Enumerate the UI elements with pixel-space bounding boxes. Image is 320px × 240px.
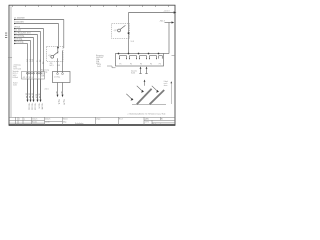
svg-text:-X1 1 2 3 4 5: -X1 1 2 3 4 5 — [23, 77, 33, 79]
svg-text:a: a — [24, 119, 25, 121]
svg-text:gn 16: gn 16 — [39, 94, 41, 99]
svg-text:sw 16: sw 16 — [32, 93, 34, 98]
svg-text:PE Verteilg.: PE Verteilg. — [14, 41, 24, 44]
svg-text:nach: nach — [164, 83, 168, 85]
svg-text:Bearb.: Bearb. — [32, 122, 38, 124]
svg-text:1L3 Verteilg.: 1L3 Verteilg. — [14, 35, 24, 38]
svg-text:Datum: Datum — [45, 118, 51, 121]
svg-text:F2: F2 — [130, 64, 132, 66]
svg-text:1: 1 — [19, 119, 20, 121]
svg-text:Kabel: Kabel — [131, 72, 136, 74]
svg-text:50Hz: 50Hz — [41, 76, 45, 78]
svg-text:E.Werk: E.Werk — [13, 76, 19, 79]
svg-text:1L3: 1L3 — [32, 59, 34, 62]
svg-text:N 400/230V: N 400/230V — [14, 22, 24, 24]
svg-text:F4: F4 — [150, 64, 152, 66]
svg-text:10.8: 10.8 — [131, 41, 134, 43]
svg-text:F3: F3 — [140, 64, 142, 66]
svg-text:sw 16: sw 16 — [26, 93, 28, 98]
svg-text:1L1 4x6: 1L1 4x6 — [14, 30, 20, 32]
svg-text:-K1 Stg: -K1 Stg — [54, 76, 60, 79]
svg-text:Vert.1L1: Vert.1L1 — [27, 104, 30, 111]
svg-text:F1: F1 — [120, 64, 122, 66]
svg-text:12.04: 12.04 — [45, 122, 50, 124]
svg-text:bl 16: bl 16 — [36, 94, 38, 98]
svg-text:oben: oben — [164, 85, 168, 87]
svg-text:Kabel: Kabel — [164, 81, 169, 83]
svg-text:Ers.f: Ers.f — [119, 119, 123, 121]
svg-text:Mey: Mey — [63, 122, 66, 124]
svg-text:Datum: Datum — [32, 118, 38, 121]
svg-text:-L1/2.3: -L1/2.3 — [164, 11, 170, 13]
svg-text:-Q2: -Q2 — [114, 30, 117, 32]
svg-text:N Verteilg.: N Verteilg. — [14, 38, 23, 41]
svg-text:2x2,5: 2x2,5 — [45, 89, 49, 91]
svg-text:Vert.PE: Vert.PE — [40, 104, 43, 111]
svg-text:z. Bodenkanalbreite mit 70 Kab: z. Bodenkanalbreite mit 70 Kabel, max.2 … — [128, 112, 166, 115]
svg-text:+ST1: +ST1 — [145, 122, 149, 124]
svg-text:=ANL: =ANL — [145, 118, 150, 121]
svg-text:Stg.1L: Stg.1L — [57, 99, 60, 104]
svg-text:L1 400/230V: L1 400/230V — [14, 18, 25, 20]
svg-text:1L2 Heizg.Vert.1OG: 1L2 Heizg.Vert.1OG — [14, 32, 31, 35]
svg-text:1L1: 1L1 — [27, 59, 29, 62]
svg-text:Schaltplan: Schaltplan — [75, 122, 83, 125]
svg-text:Vert.1L3: Vert.1L3 — [33, 104, 36, 111]
svg-text:-N/2.3: -N/2.3 — [160, 21, 165, 23]
svg-text:Urspr.: Urspr. — [96, 119, 101, 121]
svg-text:F5: F5 — [159, 64, 161, 66]
svg-text:Name: Name — [63, 119, 68, 121]
svg-text:sw 16: sw 16 — [29, 93, 31, 98]
svg-text:3x2,5: 3x2,5 — [49, 65, 53, 67]
svg-text:Bl. 1 von 1: Bl. 1 von 1 — [153, 124, 162, 126]
svg-text:5x16: 5x16 — [13, 84, 17, 86]
svg-text:-Q1: -Q1 — [48, 55, 51, 57]
svg-text:Vert.N: Vert.N — [37, 104, 40, 110]
svg-text:Stg.2N: Stg.2N — [62, 99, 65, 105]
svg-text:PE 4x6: PE 4x6 — [14, 27, 20, 29]
svg-text:Vert.1L2: Vert.1L2 — [30, 104, 33, 111]
svg-text:5x16: 5x16 — [97, 66, 101, 68]
